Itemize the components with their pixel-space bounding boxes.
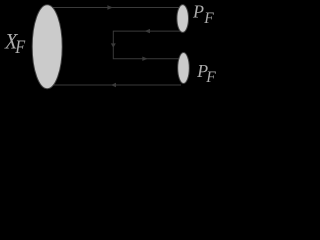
svg-text:F: F: [205, 69, 216, 86]
svg-text:P: P: [192, 2, 204, 22]
svg-text:F: F: [14, 37, 25, 58]
svg-text:F: F: [203, 10, 214, 27]
